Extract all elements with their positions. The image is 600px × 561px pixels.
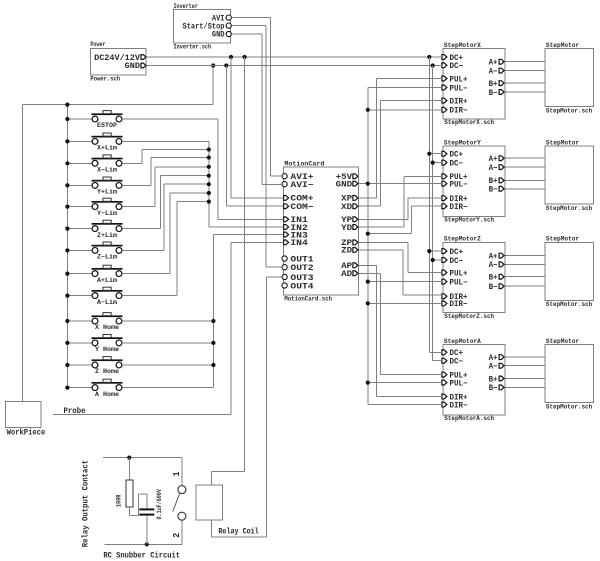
wire limit switch jog row 250.4	[122, 249, 164, 251]
svg-text:AD: AD	[341, 270, 352, 279]
svg-text:StepMotor: StepMotor	[546, 42, 579, 49]
wire snubber top	[103, 457, 182, 459]
wire B+ StepMotorZ to motor	[505, 276, 545, 278]
svg-text:Probe: Probe	[64, 406, 86, 416]
wire WorkPiece drop	[22, 105, 24, 402]
wire home switch row 321.0	[122, 320, 214, 322]
svg-text:DC−: DC−	[450, 159, 464, 168]
svg-text:StepMotor.sch: StepMotor.sch	[546, 404, 592, 411]
svg-text:StepMotor: StepMotor	[546, 338, 579, 345]
wire DC- bus vertical	[432, 66, 434, 361]
svg-text:X+Lim: X+Lim	[97, 145, 117, 152]
pin DC+ (StepMotorZ)	[442, 249, 447, 254]
svg-text:COM−: COM−	[290, 203, 313, 212]
pin GND (MotionCard right)	[353, 181, 358, 186]
svg-text:MotionCard.sch: MotionCard.sch	[284, 296, 332, 303]
wire A+ StepMotorX to motor	[505, 61, 545, 63]
junction dot tie bus	[366, 108, 370, 112]
wire resistor bottom jog	[128, 507, 130, 516]
wire tie bus branch y=281.6	[368, 281, 443, 283]
pin Start/Stop (Inverter)	[226, 23, 231, 28]
wire home switch row 342.9	[122, 342, 214, 344]
pin DC− (StepMotorY)	[442, 160, 447, 165]
pin DC− (StepMotorZ)	[442, 258, 447, 263]
pin GND (Power)	[141, 63, 146, 68]
wire limit switch jog row 206.6	[122, 206, 155, 208]
sheet symbol StepMotorX driver	[443, 49, 505, 119]
switch Z+Lim	[67, 228, 92, 230]
wire limit switch jog row 185.4	[122, 184, 151, 186]
junction dot left bus Y Home	[65, 341, 69, 345]
svg-text:Z−Lim: Z−Lim	[97, 254, 117, 261]
pin DIR− (StepMotorA)	[442, 402, 447, 407]
pin COM+ (MotionCard)	[284, 196, 289, 201]
sheet symbol StepMotor (motor Z)	[545, 242, 593, 300]
pin A− (StepMotorY)	[499, 165, 504, 170]
svg-text:StepMotor: StepMotor	[546, 139, 579, 146]
pin XD (MotionCard right)	[353, 204, 358, 209]
wire DC+ stub y=251.1	[429, 250, 443, 252]
pin COM− (MotionCard)	[284, 204, 289, 209]
pin B+ (StepMotorY)	[499, 178, 504, 183]
junction dot tie bus y=233.7	[366, 232, 370, 236]
svg-text:IN4: IN4	[290, 239, 308, 248]
wire OUT3 to relay bottom loop	[266, 276, 283, 278]
wire Inverter GND to AVI-	[231, 33, 261, 35]
pin AVI (Inverter)	[226, 15, 231, 20]
svg-text:StepMotorZ: StepMotorZ	[444, 236, 481, 243]
pin PUL+ (StepMotorA)	[442, 372, 447, 377]
pin DIR+ (StepMotorX)	[442, 98, 447, 103]
relay contact blade	[173, 493, 180, 512]
wire home bus to IN3	[213, 234, 283, 236]
wire B+ StepMotorA to motor	[505, 378, 545, 380]
pin DIR− (StepMotorX)	[442, 107, 447, 112]
junction dot left bus A Home	[65, 386, 69, 390]
block Relay Coil	[196, 485, 222, 520]
svg-text:OUT1: OUT1	[290, 255, 313, 264]
wire limit switch jog row 228.6	[122, 228, 161, 230]
junction dot limit bus y=184.2	[207, 182, 211, 186]
svg-text:ESTOP: ESTOP	[97, 122, 117, 129]
svg-text:B+: B+	[489, 274, 498, 283]
svg-text:0.1uF/600V: 0.1uF/600V	[156, 489, 163, 520]
pin OUT1 (MotionCard)	[282, 256, 287, 261]
wire B+ StepMotorX to motor	[505, 82, 545, 84]
wire ZP to PUL+Z	[359, 241, 408, 243]
pin AD (MotionCard right)	[353, 271, 358, 276]
svg-text:B+: B+	[489, 80, 498, 89]
pin A− (StepMotorX)	[499, 68, 504, 73]
svg-text:DC+: DC+	[450, 151, 464, 160]
pin DC− (StepMotorA)	[442, 358, 447, 363]
sheet symbol StepMotorZ driver	[443, 242, 505, 312]
pin B+ (StepMotorZ)	[499, 274, 504, 279]
svg-text:StepMotorY.sch: StepMotorY.sch	[444, 217, 494, 224]
sheet symbol MotionCard U_MotionCard	[284, 167, 359, 295]
wire DC+ bus vertical	[428, 57, 430, 352]
wire B− StepMotorA to motor	[505, 386, 545, 388]
wire AP to DIR+A	[359, 264, 377, 266]
svg-text:DC−: DC−	[450, 62, 464, 71]
svg-text:PUL−: PUL−	[450, 278, 468, 287]
svg-text:1: 1	[172, 471, 182, 477]
wire COM- feed	[225, 66, 227, 207]
svg-text:A−: A−	[489, 164, 498, 173]
wire ESTOP to IN1	[122, 118, 218, 120]
wire Inverter AVI to AVI+	[231, 17, 270, 19]
svg-text:StepMotorY: StepMotorY	[444, 139, 481, 146]
wire DC24V rail	[147, 56, 443, 58]
switch Y+Lim	[67, 184, 92, 186]
switch ESTOP	[67, 118, 92, 120]
sheet symbol Inverter U_Inverter	[174, 10, 231, 44]
svg-text:ZD: ZD	[341, 247, 352, 256]
wire home switch row 365.0	[122, 364, 214, 366]
junction dot GND drop	[211, 63, 215, 67]
pin IN1 (MotionCard)	[284, 217, 289, 222]
junction dot limit bus y=175.7	[207, 174, 211, 178]
svg-text:A−Lim: A−Lim	[97, 299, 117, 306]
svg-text:Z+Lim: Z+Lim	[97, 232, 117, 239]
svg-text:StepMotor.sch: StepMotor.sch	[546, 301, 592, 308]
svg-text:Y Home: Y Home	[95, 346, 119, 353]
svg-text:Inverter.sch: Inverter.sch	[174, 44, 212, 51]
switch Z−Lim	[67, 249, 92, 251]
wire tie bus jog branch to DIR-Y	[368, 233, 412, 235]
junction dot home bus	[211, 363, 215, 367]
svg-text:StepMotor: StepMotor	[546, 236, 579, 243]
svg-text:Relay Output Contact: Relay Output Contact	[80, 460, 90, 548]
junction dot limit bus y=193.0	[207, 191, 211, 195]
svg-text:DIR−: DIR−	[450, 401, 468, 410]
wire top-left horizontal from GND drop	[23, 104, 214, 106]
pin DIR+ (StepMotorY)	[442, 196, 447, 201]
wire A− StepMotorX to motor	[505, 70, 545, 72]
svg-text:Z Home: Z Home	[95, 368, 119, 375]
svg-text:YD: YD	[341, 224, 352, 233]
svg-text:MotionCard: MotionCard	[284, 160, 324, 167]
capacitor 0.1uF/600V	[139, 508, 154, 510]
pin IN2 (MotionCard)	[284, 225, 289, 230]
pin B− (StepMotorZ)	[499, 284, 504, 289]
svg-text:Inverter: Inverter	[174, 3, 198, 10]
junction dot tie bus	[366, 381, 370, 385]
svg-text:Relay Coil: Relay Coil	[218, 526, 258, 536]
wire A− StepMotorY to motor	[505, 166, 545, 168]
svg-text:A+: A+	[489, 59, 498, 68]
svg-text:StepMotorA.sch: StepMotorA.sch	[444, 415, 494, 422]
junction dot left bus Z+Lim	[65, 227, 69, 231]
junction dot left bus Y−Lim	[65, 205, 69, 209]
junction dot left bus top	[65, 103, 69, 107]
junction dot snubber bottom	[145, 542, 149, 546]
svg-text:A+: A+	[489, 252, 498, 261]
svg-text:OUT2: OUT2	[290, 264, 313, 273]
pin A− (StepMotorZ)	[499, 262, 504, 267]
junction dot limit bus y=149.5	[207, 147, 211, 151]
pin PUL− (StepMotorY)	[442, 181, 447, 186]
pin A+ (StepMotorX)	[499, 59, 504, 64]
junction dot left bus A−Lim	[65, 294, 69, 298]
svg-text:PUL−: PUL−	[450, 180, 468, 189]
switch A−Lim	[67, 295, 92, 297]
pin AVI− (MotionCard)	[282, 182, 287, 187]
switch Z Home	[67, 364, 92, 366]
svg-text:A+Lim: A+Lim	[97, 277, 117, 284]
wire tie bus branch y=109.8	[368, 109, 443, 111]
junction dot left bus X Home	[65, 319, 69, 323]
wire X+Lim to limit bus	[122, 140, 209, 142]
svg-text:B+: B+	[489, 375, 498, 384]
pin DC+ (StepMotorA)	[442, 350, 447, 355]
junction dot home bus	[211, 319, 215, 323]
svg-text:AVI−: AVI−	[290, 181, 313, 190]
wire ZD to DIR+Z	[359, 249, 403, 251]
wire DC- stub y=162.6	[433, 162, 443, 164]
pin AVI+ (MotionCard)	[282, 174, 287, 179]
sheet symbol StepMotor (motor A)	[545, 345, 593, 403]
junction dot tie bus	[366, 301, 370, 305]
svg-text:PUL−: PUL−	[450, 379, 468, 388]
wire AD to PUL+A	[359, 272, 381, 274]
svg-text:DIR+: DIR+	[450, 97, 468, 106]
wire limit switch jog row 295.6	[122, 295, 177, 297]
wire DC+ stub y=153.7	[429, 153, 443, 155]
svg-text:WorkPiece: WorkPiece	[7, 429, 46, 438]
wire tie bus branch y=303.4	[368, 302, 443, 304]
wire A+ StepMotorY to motor	[505, 157, 545, 159]
pin PUL+ (StepMotorY)	[442, 174, 447, 179]
wire probe riser to IN4	[230, 242, 232, 414]
svg-text:A−: A−	[489, 261, 498, 270]
wire B− StepMotorX to motor	[505, 91, 545, 93]
svg-text:GND: GND	[336, 180, 353, 189]
wire GND to PUL-Y rail	[359, 183, 443, 185]
pin B+ (StepMotorA)	[499, 376, 504, 381]
pin PUL+ (StepMotorZ)	[442, 270, 447, 275]
svg-text:Power.sch: Power.sch	[90, 76, 120, 83]
wire B+ StepMotorY to motor	[505, 179, 545, 181]
pin B+ (StepMotorX)	[499, 81, 504, 86]
wire B− StepMotorZ to motor	[505, 285, 545, 287]
wire DC- stub y=260.0	[433, 259, 443, 261]
junction dot tie bus GND rail	[366, 182, 370, 186]
junction dot left bus Z Home	[65, 363, 69, 367]
pin B− (StepMotorX)	[499, 90, 504, 95]
wire PUL-/DIR- tie bus	[367, 88, 369, 405]
sheet symbol StepMotorA driver	[443, 345, 505, 415]
junction dot left bus ESTOP	[65, 117, 69, 121]
svg-text:DIR−: DIR−	[450, 203, 468, 212]
pin A− (StepMotorA)	[499, 363, 504, 368]
svg-text:Y−Lim: Y−Lim	[97, 210, 117, 217]
pin IN3 (MotionCard)	[284, 232, 289, 237]
pin B− (StepMotorA)	[499, 385, 504, 390]
wire A+ StepMotorZ to motor	[505, 255, 545, 257]
pin A+ (StepMotorY)	[499, 156, 504, 161]
svg-text:X Home: X Home	[95, 324, 119, 331]
svg-text:RC Snubber Circuit: RC Snubber Circuit	[103, 551, 180, 561]
svg-text:StepMotorX: StepMotorX	[444, 42, 481, 49]
svg-text:XD: XD	[341, 203, 352, 212]
pin A+ (StepMotorA)	[499, 355, 504, 360]
wire tie bus branch y=382.6	[368, 382, 443, 384]
junction dot limit bus y=157.5	[207, 155, 211, 159]
wire A+ StepMotorA to motor	[505, 356, 545, 358]
wire limit bus vertical	[208, 141, 210, 227]
pin IN4 (MotionCard)	[284, 240, 289, 245]
relay contact pin 2	[178, 512, 186, 520]
resistor 100R	[128, 458, 130, 481]
svg-text:StepMotorZ.sch: StepMotorZ.sch	[444, 313, 494, 320]
switch A Home	[67, 387, 92, 389]
wire tie bus bottom branch DIR-A	[368, 404, 443, 406]
junction dot left bus A+Lim	[65, 272, 69, 276]
svg-text:A+: A+	[489, 155, 498, 164]
svg-text:StepMotorX.sch: StepMotorX.sch	[444, 119, 494, 126]
svg-text:100R: 100R	[115, 494, 122, 507]
svg-text:A−: A−	[489, 67, 498, 76]
svg-text:B−: B−	[489, 283, 498, 292]
pin ZD (MotionCard right)	[353, 248, 358, 253]
junction dot left bus Y+Lim	[65, 183, 69, 187]
wire YP to DIR+Y	[359, 218, 409, 220]
junction dot limit bus y=166.8	[207, 165, 211, 169]
wire Inverter Start/Stop to OUT2	[231, 25, 265, 27]
svg-text:GND: GND	[125, 62, 141, 71]
wire A− StepMotorA to motor	[505, 365, 545, 367]
wire B− StepMotorY to motor	[505, 188, 545, 190]
svg-text:B−: B−	[489, 384, 498, 393]
pin YP (MotionCard right)	[353, 217, 358, 222]
pin DIR+ (StepMotorZ)	[442, 294, 447, 299]
wire limit bus to IN2	[209, 226, 284, 228]
junction dot snubber top	[127, 456, 131, 460]
pin DC24V/12V (Power)	[141, 55, 146, 60]
pin +5V (MotionCard right)	[353, 174, 358, 179]
pin DIR− (StepMotorY)	[442, 204, 447, 209]
wire A− StepMotorZ to motor	[505, 263, 545, 265]
wire home bus vertical	[212, 235, 214, 388]
svg-text:PUL+: PUL+	[450, 269, 468, 278]
svg-text:StepMotor.sch: StepMotor.sch	[546, 205, 592, 212]
relay contact pin 1	[181, 458, 183, 486]
junction dots DC24V rail	[229, 55, 233, 59]
pin PUL− (StepMotorX)	[442, 85, 447, 90]
svg-text:PUL+: PUL+	[450, 75, 468, 84]
pin YD (MotionCard right)	[353, 225, 358, 230]
wire snubber bottom	[105, 543, 182, 545]
junction dot left bus Z−Lim	[65, 248, 69, 252]
svg-text:StepMotorA: StepMotorA	[444, 338, 481, 345]
svg-text:DIR−: DIR−	[450, 107, 468, 116]
switch X+Lim	[67, 140, 92, 142]
svg-text:GND: GND	[212, 31, 225, 40]
svg-text:B−: B−	[489, 186, 498, 195]
wire DC+ to StepMotorA	[429, 351, 443, 353]
pin OUT3 (MotionCard)	[282, 274, 287, 279]
block WorkPiece	[5, 401, 41, 427]
wire COM+ feed	[230, 57, 232, 198]
svg-text:DC−: DC−	[450, 358, 464, 367]
svg-text:A Home: A Home	[95, 391, 119, 398]
wire relay vertical x=244.6 from DC24V	[244, 57, 246, 472]
sheet symbol Power U_Power	[90, 48, 146, 75]
pin B− (StepMotorY)	[499, 186, 504, 191]
wire DC- to StepMotorA	[433, 360, 443, 362]
svg-text:DC−: DC−	[450, 257, 464, 266]
svg-text:X−Lim: X−Lim	[97, 167, 117, 174]
wire XP to PUL+X	[359, 197, 377, 199]
pin DC+ (StepMotorY)	[442, 151, 447, 156]
sheet symbol StepMotor (motor Y)	[545, 146, 593, 204]
wire limit switch jog row 163.3	[122, 162, 142, 164]
wire XD to DIR+X	[359, 205, 381, 207]
wire YD to PUL+Y	[359, 226, 405, 228]
wire GND drop at x=213	[212, 66, 214, 105]
junction dots GND rail	[224, 63, 228, 67]
pin DC− (StepMotorX)	[442, 63, 447, 68]
switch X Home	[67, 320, 92, 322]
sheet symbol StepMotorY driver	[443, 146, 505, 216]
junction dot home bus	[211, 341, 215, 345]
pin AP (MotionCard right)	[353, 263, 358, 268]
switch Y Home	[67, 342, 92, 344]
wire GND rail	[147, 65, 443, 67]
pin OUT2 (MotionCard)	[282, 265, 287, 270]
sheet symbol StepMotor (motor X)	[545, 49, 593, 107]
wire Probe line	[53, 414, 231, 416]
switch A+Lim	[67, 273, 92, 275]
svg-text:DC+: DC+	[450, 248, 464, 257]
svg-text:Power: Power	[90, 41, 105, 48]
svg-text:Y+Lim: Y+Lim	[97, 189, 117, 196]
switch X−Lim	[67, 162, 92, 164]
pin DIR− (StepMotorZ)	[442, 301, 447, 306]
pin DIR+ (StepMotorA)	[442, 394, 447, 399]
junction dot tie bus	[366, 280, 370, 284]
pin PUL+ (StepMotorX)	[442, 76, 447, 81]
pin PUL− (StepMotorA)	[442, 380, 447, 385]
pin PUL− (StepMotorZ)	[442, 279, 447, 284]
pin ZP (MotionCard right)	[353, 240, 358, 245]
svg-text:2: 2	[172, 533, 182, 538]
wire relay top feed	[212, 470, 245, 472]
switch Y−Lim	[67, 206, 92, 208]
pin XP (MotionCard right)	[353, 196, 358, 201]
svg-text:StepMotor.sch: StepMotor.sch	[546, 107, 592, 114]
junction dot left bus X−Lim	[65, 161, 69, 165]
svg-text:PUL−: PUL−	[450, 84, 468, 93]
svg-text:A−: A−	[489, 363, 498, 372]
wire limit switch jog row 273.6	[122, 273, 170, 275]
pin DC+ (StepMotorX)	[442, 55, 447, 60]
svg-text:DIR−: DIR−	[450, 300, 468, 309]
pin GND (Inverter)	[226, 31, 231, 36]
wire A Home row	[122, 387, 214, 389]
pin A+ (StepMotorZ)	[499, 253, 504, 258]
svg-text:OUT4: OUT4	[290, 282, 313, 291]
pin OUT4 (MotionCard)	[282, 283, 287, 288]
svg-text:B−: B−	[489, 89, 498, 98]
wire left switch bus	[66, 105, 68, 388]
junction dot left bus X+Lim	[65, 139, 69, 143]
junction dot limit bus y=201.6	[207, 200, 211, 204]
